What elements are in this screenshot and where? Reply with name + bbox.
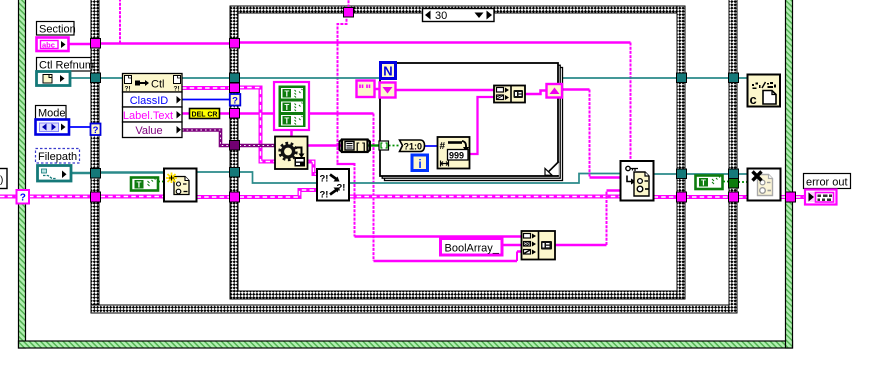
wire Section string control to outer tunnel (69, 43, 91, 46)
constant BoolArray string (441, 239, 503, 256)
for loop page fold corner (545, 162, 559, 176)
wire error open node to inner tunnel (197, 195, 230, 199)
FORLOOP (375, 63, 563, 181)
wire string left shift register to concat1 (396, 89, 495, 92)
constant cut off at left edge (0, 169, 7, 189)
svg-text:#: # (440, 141, 446, 152)
wire error outer tunnel to open node (101, 195, 165, 199)
wire string 999 node to concat1 input2 (470, 97, 495, 154)
merge errors node (317, 169, 349, 201)
wire empty string constant to left shift register (375, 88, 380, 91)
label Ctl Refnum (37, 58, 95, 72)
TUNNELS (17, 8, 796, 204)
svg-text:T: T (137, 181, 142, 190)
inner case structure top band (230, 6, 685, 13)
constant boolean T 1 (131, 178, 158, 191)
open config node (164, 169, 197, 202)
property node row ClassID (123, 92, 183, 107)
constant boolean cluster 3T (274, 82, 309, 130)
selector ? outer case (91, 124, 101, 137)
wire DEL CR string main run to junction and down (240, 114, 522, 262)
wire refnum write node to close node (654, 173, 748, 175)
for loop right shift register (547, 84, 563, 98)
wire error inner tunnel down behind gear to merge node input 1 (240, 88, 318, 175)
svg-text:999: 999 (449, 151, 464, 161)
inner case structure bottom band (230, 291, 685, 299)
while loop border right band (786, 0, 793, 348)
STRUCTURES (19, 0, 793, 348)
outer case structure right band (729, 0, 737, 313)
label Mode (36, 106, 67, 120)
c file node (748, 75, 781, 108)
svg-text:c: c (750, 92, 757, 107)
wire string concat1 out to right shift register (525, 91, 547, 95)
constant empty string (357, 81, 375, 98)
while loop border left band (19, 0, 26, 348)
wire Section string between borders (101, 42, 230, 45)
tunnel path outer-left (91, 169, 101, 179)
svg-text:?!: ?! (320, 174, 329, 185)
wire Section string inside inner case to write node (240, 43, 631, 162)
svg-text:Filepath: Filepath (38, 151, 77, 163)
wire refnum control to property node (70, 77, 123, 79)
tunnel string inner-left (230, 39, 240, 49)
tunnel variant inner-left (230, 141, 240, 151)
wire variant Value row to tunnel (182, 130, 230, 146)
close config node (748, 169, 781, 201)
tunnel string outer-left (91, 39, 101, 49)
svg-text:ClassID: ClassID (130, 95, 169, 107)
wire Section string branch up at x120 (119, 0, 121, 44)
label error out (804, 174, 851, 189)
svg-text:BoolArray_: BoolArray_ (445, 243, 500, 255)
tunnel refnum inner-right mid (677, 169, 687, 179)
tunnel error outer-right (729, 192, 739, 202)
outer case structure bottom band (91, 305, 737, 313)
tunnel error inner-left bottom (230, 192, 240, 202)
wire variant tunnel to gear node (240, 144, 276, 148)
svg-text:Ctl: Ctl (151, 79, 164, 91)
svg-text:T: T (284, 117, 289, 126)
wire refnum for loop to c node (558, 77, 748, 79)
wire filepath control to outer tunnel (71, 172, 91, 175)
wire error write node to close node (654, 195, 748, 199)
svg-text:[ ]: [ ] (356, 142, 365, 153)
wire error in from left edge to green tunnel (0, 195, 17, 199)
case selector label 30 (423, 9, 495, 23)
for loop i iteration terminal (412, 155, 428, 171)
label Section (37, 22, 76, 36)
svg-text:Section: Section (39, 24, 76, 36)
property node header Ctl (123, 74, 183, 93)
svg-text:Mode: Mode (38, 108, 66, 120)
tunnel string inner case top (344, 8, 354, 18)
property node row Value (123, 122, 183, 138)
svg-text:T: T (284, 90, 289, 99)
indicator error out cluster (805, 190, 837, 205)
control Ctl Refnum (37, 72, 71, 86)
for loop main frame (380, 63, 558, 176)
wire refnum open node to write node (197, 172, 621, 183)
wire cluster gear node to cluster-to-array (308, 144, 343, 147)
wire int bool-to-01 to 999 node (424, 145, 438, 147)
wire ClassID to inner case selector (182, 99, 230, 101)
wire filepath outer tunnel to open node (101, 171, 165, 174)
wire DEL CR string branch up to top tunnel (338, 0, 349, 114)
svg-text:?: ? (232, 96, 238, 107)
wire boolean array cluster-to-array to loop tunnel (367, 144, 379, 146)
wire DEL CR string branch down to concat top input (337, 114, 522, 237)
for loop stacked frame 2 (382, 65, 560, 178)
tunnel boolean outer-right (729, 179, 739, 189)
svg-text:abc: abc (42, 41, 55, 50)
svg-text:T: T (701, 179, 706, 188)
concat2 build node (522, 231, 556, 260)
wire Mode control to outer case selector (69, 126, 91, 128)
svg-text:?1:0: ?1:0 (404, 142, 423, 152)
write config key node (621, 161, 654, 201)
svg-text:?: ? (93, 125, 99, 136)
gear node variant to data (275, 137, 308, 170)
svg-text:Ctl Refnum: Ctl Refnum (39, 60, 94, 72)
tunnel error inner-left top (230, 83, 240, 93)
constant boolean T 2 (696, 176, 723, 190)
wire error green tunnel to outer tunnel (29, 195, 91, 199)
wire error close node to error out indicator (781, 195, 806, 199)
tunnel error inner-right (677, 192, 687, 202)
for loop left shift register (380, 83, 396, 98)
wire error property node to inner tunnel (182, 86, 230, 90)
control Section string (37, 38, 69, 52)
inner case structure right band (677, 6, 685, 299)
svg-text:Value: Value (135, 125, 162, 137)
tunnel string DEL CR inner-left (230, 109, 240, 119)
tunnel error while-loop right (786, 192, 796, 202)
control Filepath path (38, 166, 72, 182)
wire boolean array tunnel to bool-to-01 (389, 145, 400, 147)
outer case structure left band (91, 0, 99, 313)
tunnel refnum open inner-left (230, 168, 240, 178)
svg-text:?!: ?! (320, 190, 329, 201)
wire BoolArray constant to concat2 (502, 244, 522, 247)
wire string concat2 output to write node (555, 191, 621, 246)
control Mode enum (36, 120, 70, 135)
wire DEL CR string from Label.Text row (182, 112, 230, 115)
wire string shift register out to write node (562, 90, 621, 178)
constant DEL CR (190, 109, 220, 119)
wire boolean T constant 2 to green tunnel and close node (723, 181, 748, 184)
tunnel refnum inner-right top (677, 73, 687, 83)
wire error merge node output to write node (349, 195, 621, 199)
for loop stacked frame 3 (385, 68, 563, 181)
tunnel refnum outer-right mid (729, 169, 739, 179)
svg-text:?: ? (20, 193, 26, 204)
svg-text:): ) (0, 175, 3, 186)
inner case structure left band (230, 6, 238, 299)
wire boolean T constant to open node (158, 181, 164, 183)
tunnel refnum inner-left (230, 73, 240, 83)
bool to 0,1 node (400, 140, 425, 152)
svg-text:30: 30 (435, 10, 447, 22)
concat1 build node in loop (494, 86, 525, 103)
wire boolean cluster constant to gear node (290, 130, 293, 137)
svg-text:N: N (383, 64, 392, 79)
boolean array loop tunnel (379, 141, 389, 150)
label Filepath selected (36, 149, 80, 164)
wire error inner tunnel to merge node input 2 (240, 190, 318, 197)
svg-text:DEL CR: DEL CR (192, 111, 218, 118)
wire refnum property node to for loop (182, 77, 380, 79)
svg-text:Label.Text: Label.Text (123, 110, 173, 122)
rotate 999 node (438, 137, 470, 169)
tunnel error outer-left (91, 192, 101, 202)
tunnel refnum outer-right top (729, 73, 739, 83)
svg-text:T: T (284, 103, 289, 112)
cluster to array node (340, 140, 371, 154)
for loop N count terminal (381, 63, 396, 79)
while loop border bottom band (19, 341, 793, 348)
tunnel error while-loop question mark (17, 190, 30, 204)
tunnel refnum outer-left (91, 73, 101, 83)
property node row Label.Text (123, 107, 183, 122)
svg-text:error out: error out (806, 177, 848, 189)
selector ? inner case (230, 94, 241, 107)
svg-text:i: i (418, 157, 421, 171)
